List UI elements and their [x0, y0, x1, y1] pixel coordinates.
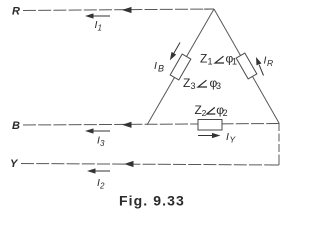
svg-text:R: R: [267, 58, 273, 68]
svg-text:2: 2: [99, 182, 105, 191]
svg-text:Y: Y: [10, 158, 19, 170]
svg-text:Z: Z: [183, 76, 190, 90]
svg-text:3: 3: [100, 139, 105, 148]
svg-text:Y: Y: [230, 135, 237, 145]
svg-text:1: 1: [232, 57, 237, 67]
svg-text:1: 1: [98, 24, 102, 33]
svg-text:2: 2: [202, 108, 207, 118]
svg-text:2: 2: [223, 108, 228, 118]
svg-text:3: 3: [191, 81, 196, 91]
svg-text:Z: Z: [200, 52, 207, 66]
svg-text:3: 3: [216, 81, 221, 91]
svg-text:I: I: [154, 60, 157, 72]
svg-text:Fig. 9.33: Fig. 9.33: [119, 193, 185, 209]
svg-text:1: 1: [208, 57, 213, 67]
svg-text:B: B: [12, 120, 20, 132]
svg-text:B: B: [158, 64, 164, 74]
svg-text:R: R: [12, 6, 20, 18]
